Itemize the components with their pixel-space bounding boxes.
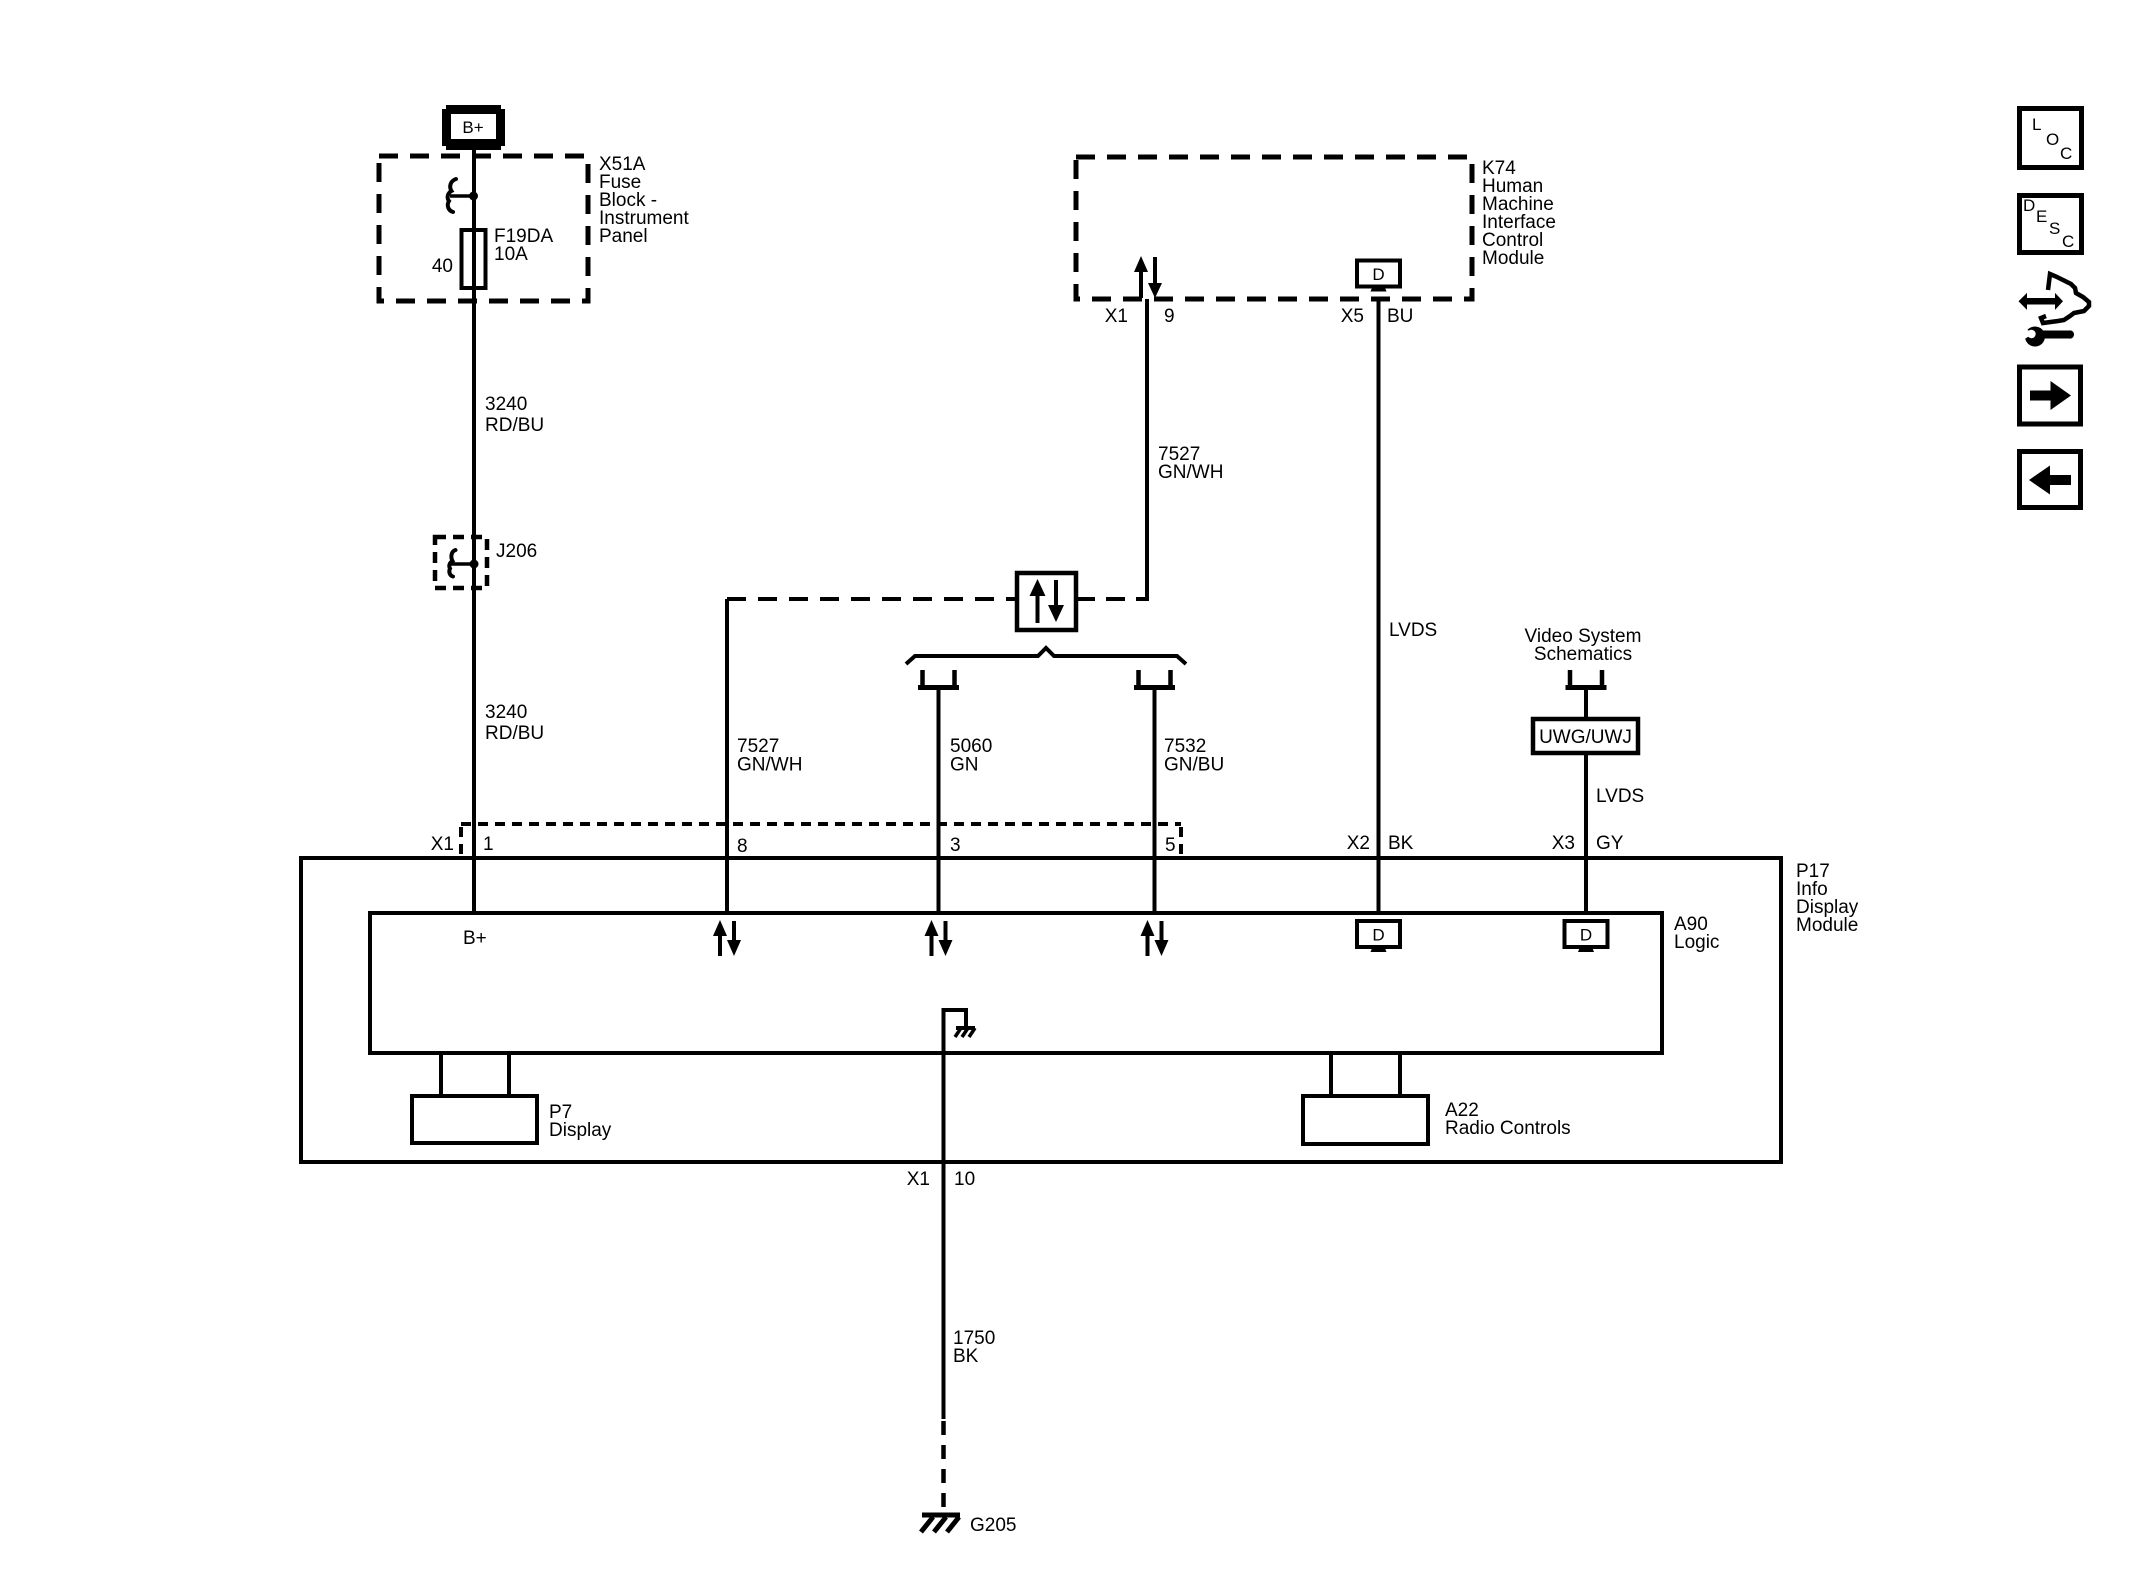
svg-text:X5: X5: [1341, 306, 1364, 327]
svg-text:D: D: [1372, 265, 1384, 284]
nav icon data exchange with tool: [2019, 274, 2090, 347]
label A90 Logic: [1674, 914, 1719, 953]
pin label K74 X1 9: [1105, 306, 1175, 327]
pin 8: [737, 836, 748, 857]
svg-text:GN/BU: GN/BU: [1164, 755, 1224, 776]
label LVDS right: [1596, 786, 1644, 807]
svg-text:J206: J206: [496, 541, 537, 562]
node B+ inside A90: [463, 928, 487, 949]
fuse block X51A dashed outline: [379, 156, 588, 301]
svg-text:C: C: [2060, 144, 2072, 163]
pin label X3 GY: [1552, 833, 1624, 854]
logic block A90 box: [370, 913, 1662, 1053]
serial data arrows pin 8: [713, 920, 741, 956]
power symbol B+: [442, 105, 505, 150]
svg-text:Radio Controls: Radio Controls: [1445, 1118, 1571, 1139]
connector symbol above wire 7532: [1134, 670, 1175, 688]
pin 40 label: [432, 256, 453, 277]
svg-text:D: D: [1580, 926, 1592, 945]
serial data arrows inside K74: [1134, 256, 1162, 298]
label P17 Info Display Module: [1796, 861, 1859, 936]
serial data link symbol box: [1017, 573, 1076, 630]
svg-text:Schematics: Schematics: [1534, 644, 1632, 665]
label P7 Display: [549, 1102, 612, 1141]
svg-text:1: 1: [483, 834, 494, 855]
dashed ground wire to G205: [941, 1421, 946, 1513]
display P7 box: [412, 1096, 537, 1143]
svg-text:40: 40: [432, 256, 453, 277]
svg-text:3240: 3240: [485, 394, 527, 415]
svg-text:RD/BU: RD/BU: [485, 723, 544, 744]
pin label X1 1: [431, 834, 494, 855]
wire K74 X1-9 serial data: [1145, 299, 1149, 601]
svg-text:LVDS: LVDS: [1596, 786, 1644, 807]
svg-text:GN: GN: [950, 755, 979, 776]
svg-text:Logic: Logic: [1674, 932, 1719, 953]
svg-text:Module: Module: [1482, 248, 1544, 269]
nav icon LOC: [2020, 109, 2082, 168]
svg-text:X1: X1: [907, 1169, 930, 1190]
svg-text:D: D: [2023, 196, 2035, 215]
svg-text:Display: Display: [549, 1120, 612, 1141]
wire 7532 GN/BU to pin 5: [1153, 688, 1157, 913]
svg-text:X1: X1: [1105, 306, 1128, 327]
nav icon back arrow: [2020, 452, 2081, 508]
svg-text:8: 8: [737, 836, 748, 857]
wire UWG/UWJ LVDS to P17 X3: [1584, 753, 1588, 913]
wire label 7527 GN/WH right: [1158, 444, 1223, 483]
display input D icon X2: [1357, 921, 1400, 952]
RPO code box UWG/UWJ: [1533, 719, 1638, 753]
wire label 7527 GN/WH: [737, 736, 802, 776]
svg-text:X1: X1: [431, 834, 454, 855]
svg-text:UWG/UWJ: UWG/UWJ: [1539, 727, 1632, 748]
svg-text:GY: GY: [1596, 833, 1624, 854]
svg-text:S: S: [2049, 219, 2060, 238]
internal ground symbol inside A90: [944, 1010, 976, 1037]
svg-text:E: E: [2036, 207, 2047, 226]
splice J206 dashed box: [435, 537, 487, 588]
pin label X1 10: [907, 1169, 975, 1190]
wire label 3240 RD/BU lower: [485, 702, 544, 744]
svg-text:X3: X3: [1552, 833, 1575, 854]
wire video link to UWG/UWJ: [1584, 689, 1588, 719]
svg-text:9: 9: [1164, 306, 1175, 327]
display output D icon inside K74: [1357, 261, 1400, 292]
svg-text:3240: 3240: [485, 702, 527, 723]
module P17 Info Display Module box: [301, 858, 1781, 1162]
wire label 1750 BK: [953, 1328, 995, 1367]
svg-text:10: 10: [954, 1169, 975, 1190]
svg-text:RD/BU: RD/BU: [485, 415, 544, 436]
dashed serial link wire right: [1076, 597, 1147, 601]
svg-text:LVDS: LVDS: [1389, 620, 1437, 641]
svg-text:C: C: [2062, 232, 2074, 251]
wire 5060 GN to pin 3: [937, 688, 941, 913]
svg-text:O: O: [2046, 130, 2059, 149]
svg-text:X2: X2: [1347, 833, 1370, 854]
connector symbol above wire 5060: [918, 670, 959, 688]
wire B+ to fuse block pin X1-1: [472, 150, 476, 913]
dotted connector row X1: [461, 824, 1181, 856]
pin label X2 BK: [1347, 833, 1414, 854]
brace grouping serial data: [906, 648, 1186, 664]
svg-text:Panel: Panel: [599, 226, 648, 247]
svg-text:B+: B+: [463, 928, 487, 949]
svg-text:3: 3: [950, 835, 961, 856]
wire label 5060 GN: [950, 736, 992, 776]
nav icon next arrow: [2020, 367, 2081, 424]
wire K74 X5 LVDS to P17 X2: [1377, 299, 1381, 913]
wire label 7532 GN/BU: [1164, 736, 1224, 776]
serial data arrows pin 5: [1141, 920, 1169, 956]
svg-text:GN/WH: GN/WH: [737, 755, 802, 776]
label G205: [970, 1515, 1016, 1536]
svg-text:L: L: [2032, 115, 2041, 134]
serial data arrows pin 3: [925, 920, 953, 956]
svg-text:BK: BK: [1388, 833, 1414, 854]
label LVDS left: [1389, 620, 1437, 641]
svg-text:GN/WH: GN/WH: [1158, 462, 1223, 483]
ground G205: [921, 1515, 960, 1532]
module K74 dashed outline: [1076, 157, 1472, 299]
splice clip inside fuse block: [448, 179, 478, 212]
label F19DA 10A: [494, 226, 553, 265]
connector symbol video link: [1566, 670, 1607, 688]
connector legs P7: [441, 1053, 509, 1096]
wire label 3240 RD/BU upper: [485, 394, 544, 436]
wire 7527 GN/WH to pin 8: [725, 599, 729, 913]
svg-text:BU: BU: [1387, 306, 1413, 327]
label Video System Schematics: [1525, 626, 1642, 665]
radio controls A22 box: [1303, 1096, 1428, 1144]
label X51A Fuse Block - Instrument Panel: [599, 154, 689, 247]
label K74 Human Machine Interface Control Module: [1482, 158, 1556, 269]
pin 3: [950, 835, 961, 856]
svg-text:Module: Module: [1796, 915, 1858, 936]
nav icon DESC: [2020, 196, 2082, 253]
svg-text:5: 5: [1165, 835, 1176, 856]
svg-text:B+: B+: [462, 118, 483, 137]
connector legs A22: [1331, 1053, 1400, 1096]
ground wire inside P17 to X1-10: [942, 1008, 946, 1419]
label J206: [496, 541, 537, 562]
svg-text:G205: G205: [970, 1515, 1016, 1536]
splice clip inside J206: [449, 550, 478, 577]
pin 5: [1165, 835, 1176, 856]
svg-text:10A: 10A: [494, 244, 528, 265]
svg-text:D: D: [1372, 926, 1384, 945]
fuse F19DA 10A: [462, 230, 486, 288]
display input D icon X3: [1565, 921, 1608, 952]
dashed serial link wire left: [727, 597, 1017, 601]
pin label K74 X5 BU: [1341, 306, 1414, 327]
svg-text:BK: BK: [953, 1346, 979, 1367]
label A22 Radio Controls: [1445, 1100, 1571, 1139]
